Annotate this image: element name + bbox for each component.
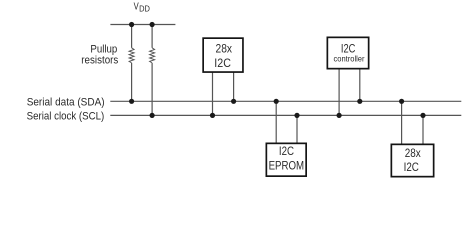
svg-text:28x: 28x: [216, 44, 233, 56]
svg-text:I2C: I2C: [214, 58, 231, 70]
svg-text:controller: controller: [334, 54, 365, 63]
svg-text:I2C: I2C: [279, 146, 294, 158]
svg-text:EPROM: EPROM: [269, 161, 305, 173]
svg-text:I2C: I2C: [404, 162, 419, 174]
svg-text:28x: 28x: [405, 148, 421, 160]
svg-text:resistors: resistors: [81, 55, 118, 67]
svg-text:Serial clock (SCL): Serial clock (SCL): [27, 111, 105, 123]
svg-text:DD: DD: [139, 3, 150, 13]
svg-text:Serial data (SDA): Serial data (SDA): [27, 96, 105, 108]
